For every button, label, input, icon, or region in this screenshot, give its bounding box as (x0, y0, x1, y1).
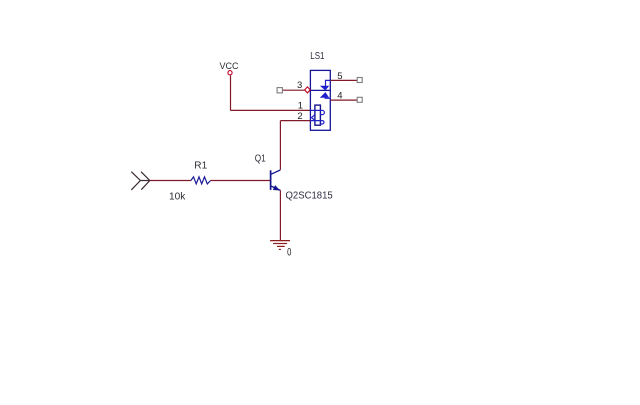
svg-text:0: 0 (287, 247, 291, 259)
wire LS1 pin 2 horizontal (280, 120, 310, 122)
svg-text:10k: 10k (169, 191, 186, 202)
svg-text:R1: R1 (194, 161, 207, 172)
relay LS1 coil winding lower (310, 121, 324, 124)
svg-text:3: 3 (297, 80, 302, 91)
node diamond pin 3 (305, 87, 311, 93)
wire VCC to LS1 pin 1 (231, 109, 311, 111)
relay LS1 contact arrow to pin 4 (321, 93, 328, 97)
wire emitter to ground (279, 190, 281, 240)
ground symbol (270, 241, 290, 250)
terminal square pin 5 (357, 78, 362, 83)
relay LS1 coil winding upper (310, 110, 324, 114)
wire LS1 pin 4 (330, 99, 357, 101)
wire collector vertical (279, 121, 281, 170)
transistor Q1 base bar (270, 170, 272, 190)
transistor Q1 emitter arrowhead (274, 186, 279, 190)
terminal square pin 3 (277, 88, 282, 93)
relay LS1 coil arrow (312, 115, 315, 121)
relay LS1 contact arrow to pin 5 (326, 80, 331, 86)
transistor Q1 collector stroke (271, 170, 280, 174)
relay LS1 coil core (315, 105, 321, 125)
wire LS1 pin 3 (283, 89, 306, 91)
terminal square pin 4 (357, 97, 362, 102)
wire LS1 pin 5 (330, 79, 357, 81)
wire input to R1 (150, 180, 191, 182)
svg-text:Q2SC1815: Q2SC1815 (286, 191, 334, 202)
wire R1 to Q1 base (211, 180, 271, 182)
svg-text:Q1: Q1 (255, 154, 266, 165)
relay LS1 body (310, 70, 330, 130)
transistor Q1 emitter stroke (271, 186, 280, 190)
wire VCC vertical (230, 75, 232, 110)
resistor R1 zigzag (191, 177, 211, 184)
input connector chevrons (131, 172, 150, 190)
power VCC terminal circle (228, 71, 232, 75)
svg-text:LS1: LS1 (310, 51, 325, 62)
relay LS1 common contact divider (310, 89, 330, 91)
